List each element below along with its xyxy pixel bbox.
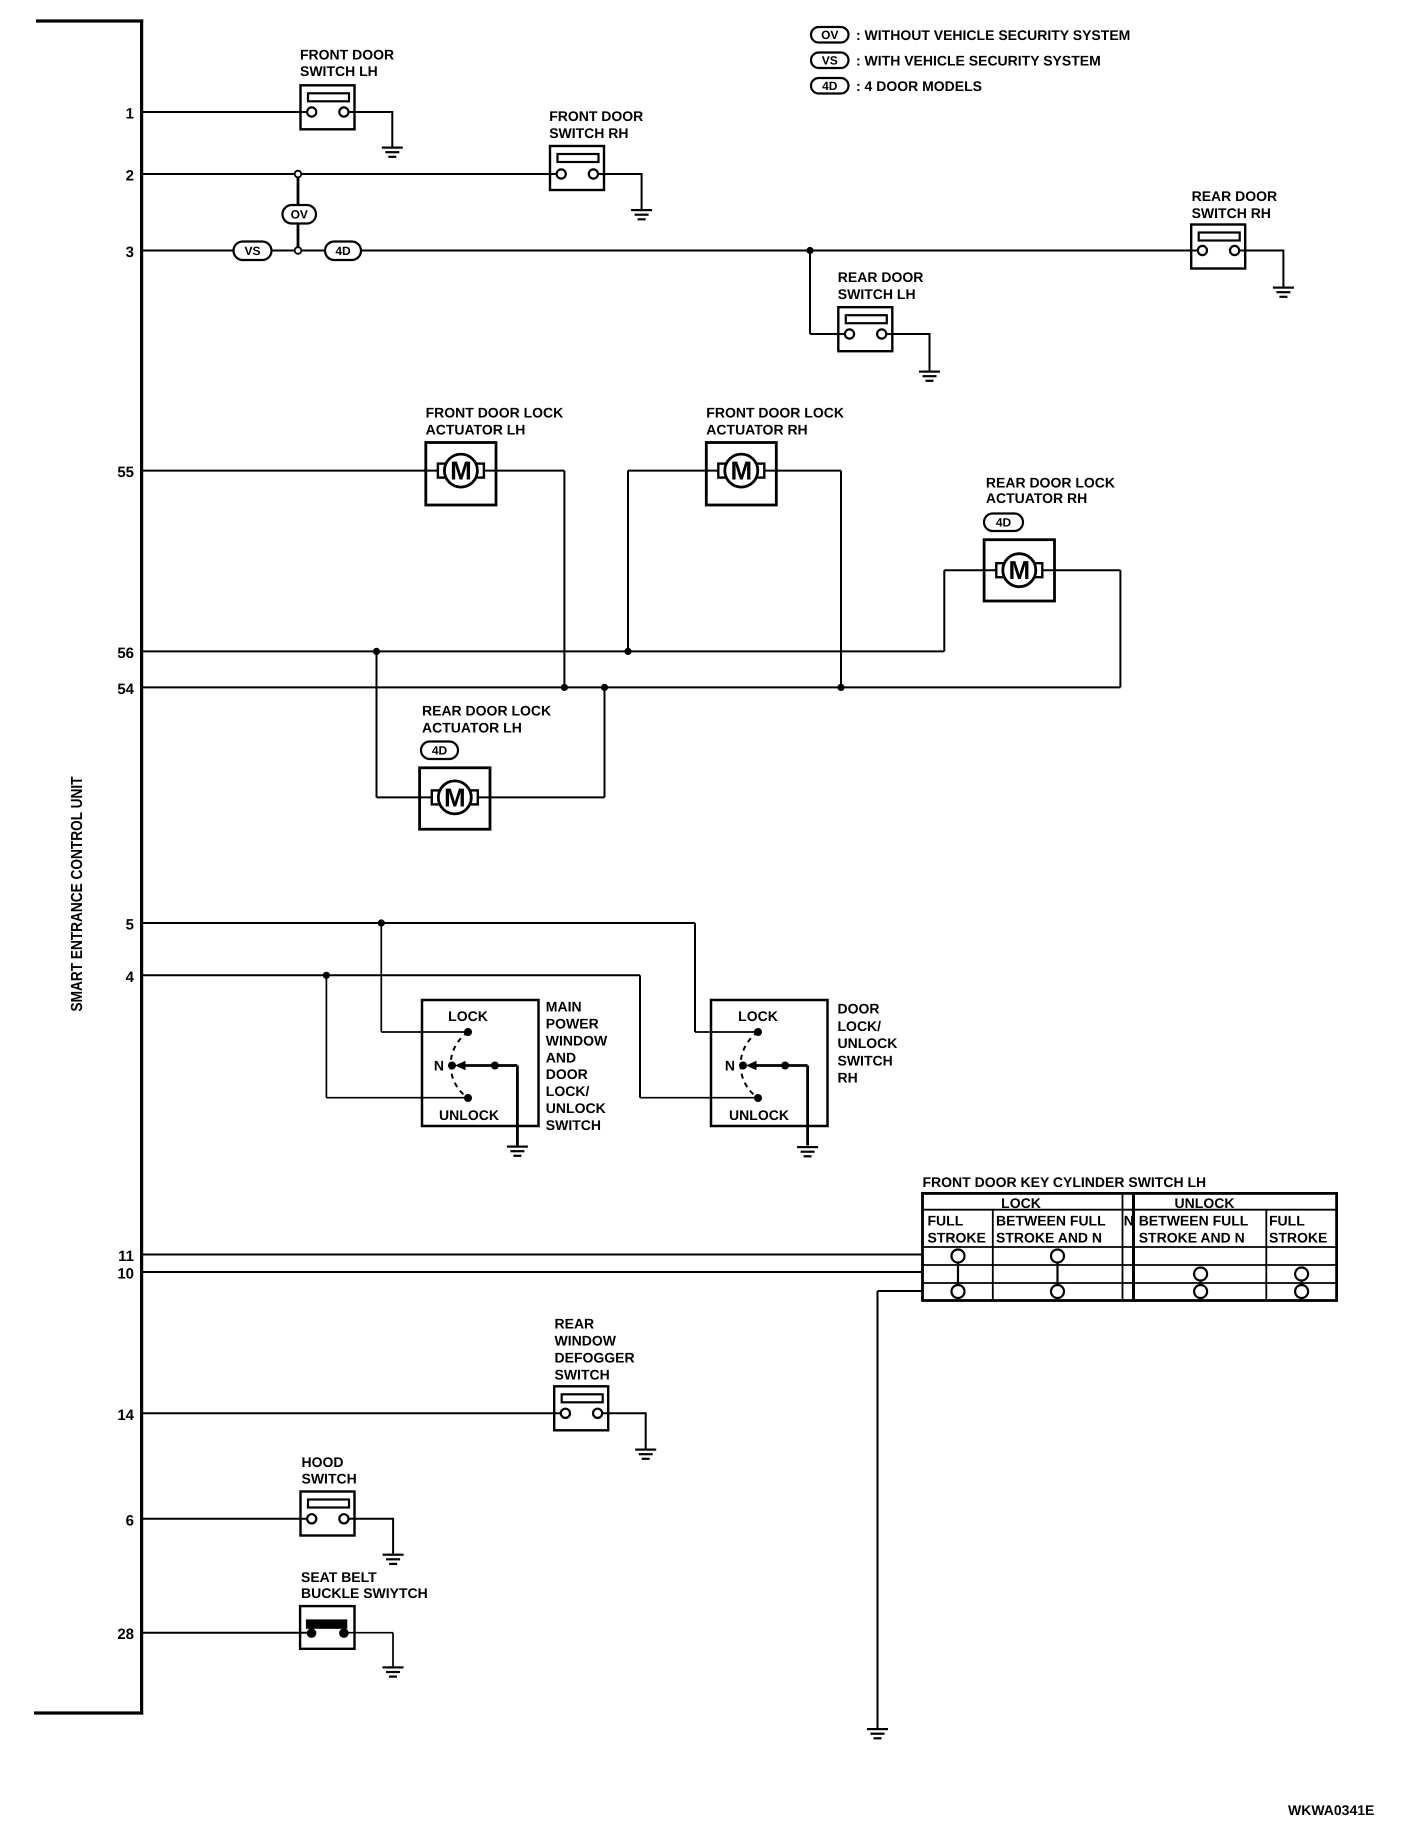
motor symbol rear door lock actuator RH bbox=[996, 554, 1042, 587]
svg-text:FULL: FULL bbox=[1269, 1213, 1305, 1229]
svg-text:REAR DOOR LOCK: REAR DOOR LOCK bbox=[986, 475, 1115, 491]
wire line 4 corner down to RH switch UNLOCK bbox=[640, 975, 758, 1097]
svg-text:SWITCH LH: SWITCH LH bbox=[300, 63, 378, 79]
wire pin 56 bbox=[143, 650, 944, 652]
wire key cylinder switch row 3 to ground bbox=[878, 1291, 923, 1728]
rear door lock actuator LH box bbox=[420, 768, 490, 829]
svg-text:WINDOW: WINDOW bbox=[546, 1032, 608, 1048]
main power window and door lock/unlock switch label bbox=[546, 999, 608, 1133]
svg-text:DEFOGGER: DEFOGGER bbox=[555, 1349, 635, 1365]
svg-text:SEAT BELT: SEAT BELT bbox=[301, 1569, 377, 1585]
ground rear door switch RH bbox=[1273, 287, 1294, 298]
rear window defogger switch bbox=[554, 1386, 608, 1430]
svg-text:ACTUATOR RH: ACTUATOR RH bbox=[986, 490, 1087, 506]
door lock/unlock switch RH label bbox=[838, 1001, 898, 1086]
svg-text:: WITHOUT VEHICLE SECURITY SYS: : WITHOUT VEHICLE SECURITY SYSTEM bbox=[856, 27, 1130, 43]
svg-text:SWITCH RH: SWITCH RH bbox=[549, 125, 628, 141]
wire rear window defogger switch to ground drop bbox=[597, 1412, 645, 1448]
svg-text:: WITH VEHICLE SECURITY SYSTEM: : WITH VEHICLE SECURITY SYSTEM bbox=[856, 53, 1101, 69]
figure code WKWA0341E bbox=[1288, 1802, 1374, 1818]
wire pin 4 bbox=[143, 974, 640, 976]
svg-text:DOOR: DOOR bbox=[838, 1001, 880, 1017]
svg-text:LOCK: LOCK bbox=[448, 1008, 488, 1024]
svg-text:MAIN: MAIN bbox=[546, 999, 582, 1015]
wire line 56 up to rear door lock actuator RH left side bbox=[944, 570, 1006, 651]
seat belt buckle switch label bbox=[301, 1569, 428, 1601]
wire OV branch between line 2 and line 3 bbox=[297, 174, 300, 251]
svg-text:14: 14 bbox=[117, 1407, 134, 1424]
front door key cylinder switch LH title bbox=[923, 1174, 1207, 1190]
front door lock actuator RH box bbox=[706, 443, 776, 506]
svg-text:ACTUATOR RH: ACTUATOR RH bbox=[706, 422, 807, 438]
svg-text:AND: AND bbox=[546, 1049, 576, 1065]
wire pin 5 bbox=[143, 922, 695, 924]
wire hood switch to ground drop bbox=[344, 1518, 393, 1554]
svg-text:LOCK/: LOCK/ bbox=[546, 1083, 590, 1099]
front door switch LH bbox=[301, 85, 355, 129]
svg-text:STROKE: STROKE bbox=[928, 1229, 986, 1245]
svg-text:REAR DOOR: REAR DOOR bbox=[1192, 188, 1278, 204]
svg-text:WKWA0341E: WKWA0341E bbox=[1288, 1802, 1374, 1818]
hood switch bbox=[301, 1492, 355, 1536]
wire pin 2 to front door switch RH bbox=[143, 173, 561, 175]
control unit pin numbers 1,2,3,55,56,54,5,4,11,10,14,6,28 bbox=[117, 106, 134, 1644]
svg-text:3: 3 bbox=[126, 244, 134, 261]
svg-text:UNLOCK: UNLOCK bbox=[838, 1035, 898, 1051]
ground front door switch LH bbox=[382, 147, 403, 158]
ground seat belt buckle switch bbox=[383, 1666, 404, 1677]
legend OV symbol bbox=[811, 27, 849, 43]
svg-text:4: 4 bbox=[126, 969, 135, 986]
svg-text:4D: 4D bbox=[996, 516, 1012, 530]
svg-text:: 4 DOOR MODELS: : 4 DOOR MODELS bbox=[856, 78, 982, 94]
ground front door key cylinder switch bbox=[867, 1728, 888, 1739]
front door key cylinder switch LH table grid bbox=[923, 1193, 1337, 1300]
wire rear door lock actuator RH right side down to line 54 bbox=[1032, 570, 1120, 687]
wire pin 11 to key cylinder switch bbox=[143, 1254, 923, 1256]
rear door lock actuator RH label bbox=[986, 475, 1115, 507]
smart entrance control unit label bbox=[69, 776, 86, 1011]
legend VS text bbox=[856, 53, 1101, 69]
svg-text:LOCK: LOCK bbox=[738, 1008, 778, 1024]
svg-text:ACTUATOR LH: ACTUATOR LH bbox=[422, 720, 522, 736]
svg-text:BETWEEN FULL: BETWEEN FULL bbox=[996, 1213, 1106, 1229]
svg-text:POWER: POWER bbox=[546, 1016, 599, 1032]
wire pin 14 to rear window defogger switch bbox=[143, 1412, 565, 1414]
svg-text:SWITCH: SWITCH bbox=[546, 1117, 601, 1133]
junction node line 56 at front door lock actuator RH branch bbox=[624, 648, 631, 655]
svg-text:10: 10 bbox=[117, 1266, 134, 1283]
main power window and door lock/unlock switch bbox=[422, 1000, 539, 1146]
svg-text:M: M bbox=[450, 456, 472, 486]
svg-text:REAR DOOR: REAR DOOR bbox=[838, 269, 924, 285]
svg-text:54: 54 bbox=[117, 681, 134, 698]
front door lock actuator RH label bbox=[706, 405, 844, 438]
svg-text:M: M bbox=[444, 782, 466, 812]
wire line 5 branch down to main switch LOCK bbox=[381, 923, 468, 1032]
svg-text:BUCKLE SWIYTCH: BUCKLE SWIYTCH bbox=[301, 1585, 428, 1601]
wire seat belt buckle switch to ground drop bbox=[344, 1633, 393, 1667]
smart entrance control unit box (left bracket) bbox=[34, 19, 143, 1714]
motor symbol front door lock actuator RH bbox=[718, 454, 764, 487]
seat belt buckle switch bbox=[300, 1606, 354, 1649]
4D option oval rear door lock actuator LH bbox=[421, 742, 458, 760]
svg-text:RH: RH bbox=[838, 1070, 858, 1086]
svg-text:FRONT DOOR: FRONT DOOR bbox=[300, 47, 394, 63]
connector circle on line 3 bbox=[295, 247, 302, 254]
wire pin 10 to key cylinder switch bbox=[143, 1271, 923, 1273]
wire front door lock actuator LH right side down to line 54 bbox=[474, 471, 564, 688]
svg-text:2: 2 bbox=[126, 168, 134, 185]
svg-text:FRONT DOOR: FRONT DOOR bbox=[549, 108, 643, 124]
motor symbol rear door lock actuator LH bbox=[432, 781, 478, 814]
junction node on line 3 for rear door switch LH bbox=[806, 247, 813, 254]
svg-text:4D: 4D bbox=[822, 79, 838, 93]
rear door switch RH bbox=[1191, 225, 1245, 269]
front door switch LH label bbox=[300, 47, 394, 80]
wire line 56 up to front door lock actuator RH left side bbox=[628, 471, 728, 652]
svg-text:N: N bbox=[434, 1058, 444, 1074]
svg-text:LOCK/: LOCK/ bbox=[838, 1018, 882, 1034]
hood switch label bbox=[302, 1454, 357, 1487]
wire line 5 corner down to RH switch LOCK bbox=[695, 923, 758, 1032]
svg-text:ACTUATOR LH: ACTUATOR LH bbox=[426, 422, 526, 438]
svg-text:HOOD: HOOD bbox=[302, 1454, 344, 1470]
wire pin 1 to front door switch LH bbox=[143, 111, 311, 113]
rear door switch LH label bbox=[838, 269, 924, 302]
wire pin 3 to rear door switch RH bbox=[143, 250, 1203, 252]
wire pin 55 to front door lock actuator LH bbox=[143, 470, 448, 472]
junction node line 54 at front door lock actuator LH drop bbox=[561, 684, 568, 691]
legend OV text bbox=[856, 27, 1130, 43]
svg-text:1: 1 bbox=[126, 106, 134, 123]
ground rear door switch LH bbox=[919, 371, 940, 382]
svg-text:REAR DOOR LOCK: REAR DOOR LOCK bbox=[422, 703, 551, 719]
junction node line 54 at front door lock actuator RH drop bbox=[837, 684, 844, 691]
legend VS symbol bbox=[811, 53, 849, 69]
wire line 56 down to rear door lock actuator LH left side bbox=[377, 651, 442, 797]
svg-text:SWITCH: SWITCH bbox=[555, 1366, 610, 1382]
svg-text:STROKE: STROKE bbox=[1269, 1229, 1327, 1245]
wire front door switch LH to ground drop bbox=[344, 111, 393, 147]
junction node line 5 for main switch bbox=[378, 919, 385, 926]
rear window defogger switch label bbox=[555, 1315, 635, 1382]
svg-text:FRONT DOOR KEY CYLINDER SWITCH: FRONT DOOR KEY CYLINDER SWITCH LH bbox=[923, 1174, 1207, 1190]
wire rear door lock actuator LH right side up to line 54 bbox=[468, 687, 605, 797]
wire front door switch RH to ground drop bbox=[593, 173, 641, 209]
junction node line 54 at rear door lock actuator LH drop bbox=[601, 684, 608, 691]
svg-text:WINDOW: WINDOW bbox=[555, 1332, 617, 1348]
svg-text:11: 11 bbox=[118, 1248, 134, 1265]
connector circle on line 2 bbox=[295, 171, 302, 178]
svg-text:M: M bbox=[1008, 555, 1030, 585]
svg-text:6: 6 bbox=[126, 1512, 134, 1529]
front door switch RH label bbox=[549, 108, 643, 141]
junction node line 4 for main switch bbox=[323, 972, 330, 979]
svg-text:UNLOCK: UNLOCK bbox=[546, 1100, 606, 1116]
4D option oval rear door lock actuator RH bbox=[984, 514, 1023, 532]
rear door lock actuator RH box bbox=[984, 540, 1054, 601]
rear door switch RH label bbox=[1192, 188, 1278, 221]
rear door lock actuator LH label bbox=[422, 703, 551, 736]
wire pin 28 to seat belt buckle switch bbox=[143, 1632, 312, 1634]
junction node line 56 at rear door lock actuator LH branch bbox=[373, 648, 380, 655]
svg-text:REAR: REAR bbox=[555, 1315, 595, 1331]
svg-text:OV: OV bbox=[291, 208, 308, 222]
svg-text:OV: OV bbox=[821, 28, 838, 42]
VS option oval on line 3 bbox=[234, 242, 272, 261]
svg-text:UNLOCK: UNLOCK bbox=[1175, 1195, 1235, 1211]
wire line 4 branch down to main switch UNLOCK bbox=[326, 975, 468, 1097]
svg-text:4D: 4D bbox=[335, 244, 351, 258]
ground front door switch RH bbox=[631, 209, 652, 220]
svg-text:BETWEEN FULL: BETWEEN FULL bbox=[1139, 1213, 1249, 1229]
svg-text:M: M bbox=[730, 456, 752, 486]
svg-text:N: N bbox=[725, 1058, 735, 1074]
svg-text:UNLOCK: UNLOCK bbox=[729, 1107, 789, 1123]
front door key cylinder switch LH table headers bbox=[928, 1195, 1328, 1245]
wire front door lock actuator RH right side down to line 54 bbox=[754, 471, 841, 688]
front door lock actuator LH label bbox=[426, 405, 564, 438]
legend 4D text bbox=[856, 78, 982, 94]
svg-text:5: 5 bbox=[126, 917, 134, 934]
wire pin 54 bbox=[143, 686, 1120, 688]
svg-text:STROKE AND N: STROKE AND N bbox=[1139, 1229, 1245, 1245]
svg-text:SWITCH: SWITCH bbox=[838, 1052, 893, 1068]
svg-text:SMART ENTRANCE CONTROL UNIT: SMART ENTRANCE CONTROL UNIT bbox=[69, 776, 86, 1011]
svg-text:N: N bbox=[1124, 1213, 1134, 1229]
4D option oval on line 3 bbox=[325, 242, 361, 261]
wire rear door switch RH to ground drop bbox=[1235, 250, 1284, 287]
OV option oval on branch bbox=[283, 205, 317, 224]
front door lock actuator LH box bbox=[426, 443, 496, 506]
rear door switch LH bbox=[838, 307, 892, 351]
svg-text:28: 28 bbox=[117, 1626, 134, 1643]
svg-text:SWITCH RH: SWITCH RH bbox=[1192, 205, 1271, 221]
svg-text:SWITCH: SWITCH bbox=[302, 1471, 357, 1487]
legend 4D symbol bbox=[811, 78, 849, 94]
ground door lock/unlock switch RH bbox=[797, 1146, 818, 1157]
svg-text:FRONT DOOR LOCK: FRONT DOOR LOCK bbox=[426, 405, 564, 421]
svg-text:VS: VS bbox=[822, 54, 838, 68]
ground hood switch bbox=[383, 1554, 404, 1565]
svg-text:FULL: FULL bbox=[928, 1213, 964, 1229]
svg-text:DOOR: DOOR bbox=[546, 1066, 588, 1082]
svg-text:UNLOCK: UNLOCK bbox=[439, 1107, 499, 1123]
svg-text:VS: VS bbox=[244, 244, 260, 258]
wire line 3 junction down to rear door switch LH bbox=[810, 251, 849, 335]
svg-text:LOCK: LOCK bbox=[1001, 1195, 1041, 1211]
ground rear window defogger switch bbox=[635, 1449, 656, 1460]
front door key cylinder switch LH contact circles bbox=[952, 1250, 1309, 1299]
svg-text:55: 55 bbox=[117, 464, 134, 481]
door lock/unlock switch RH bbox=[711, 1000, 828, 1146]
motor symbol front door lock actuator LH bbox=[438, 454, 484, 487]
svg-text:4D: 4D bbox=[432, 744, 448, 758]
wire rear door switch LH to ground drop bbox=[881, 333, 930, 371]
front door switch RH bbox=[550, 146, 604, 190]
svg-text:SWITCH LH: SWITCH LH bbox=[838, 286, 916, 302]
svg-text:FRONT DOOR LOCK: FRONT DOOR LOCK bbox=[706, 405, 844, 421]
wire pin 6 to hood switch bbox=[143, 1518, 312, 1520]
ground main power window switch bbox=[507, 1146, 528, 1157]
svg-text:56: 56 bbox=[117, 645, 134, 662]
svg-text:STROKE AND N: STROKE AND N bbox=[996, 1229, 1102, 1245]
